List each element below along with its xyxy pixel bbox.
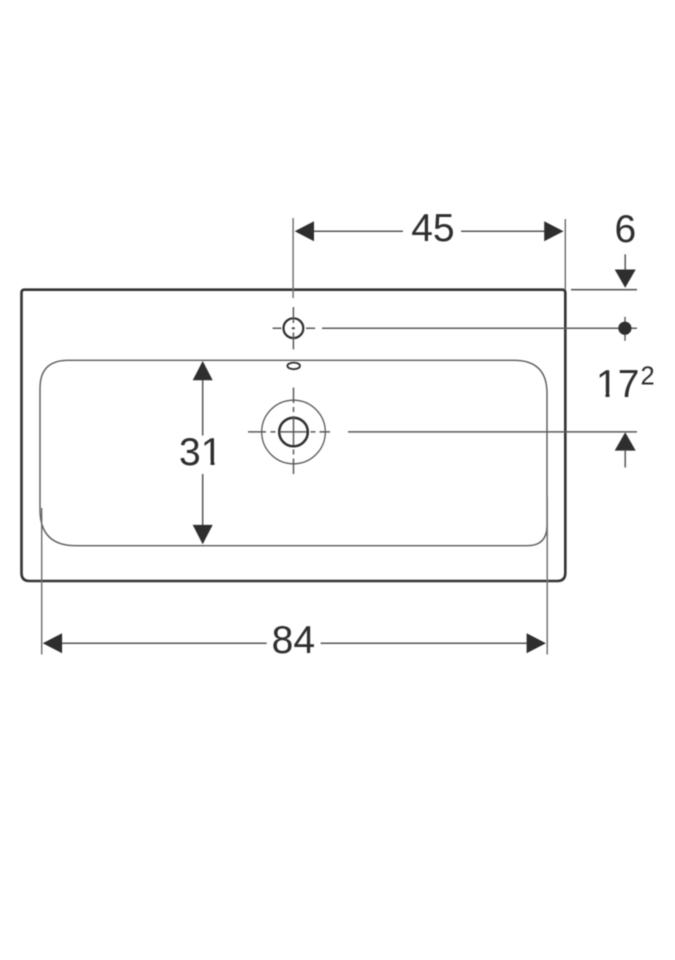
faucet hole (284, 318, 304, 338)
top edge extension line right (571, 289, 637, 291)
reference dot vertical tick (624, 317, 626, 341)
dimension 17 label one-glyph serif patch (598, 393, 605, 398)
dimension 84 line (44, 642, 544, 644)
faucet hole vertical centerline (292, 307, 294, 349)
svg-text:31: 31 (179, 431, 222, 474)
overflow hole (287, 363, 300, 370)
dimension 84 extension line left (41, 508, 43, 655)
svg-text:84: 84 (272, 619, 315, 662)
faucet hole horizontal centerline (273, 327, 316, 329)
line from faucet hole to reference dot (322, 327, 637, 329)
basin inner bowl (40, 360, 547, 545)
dimension 6 down arrowhead (615, 270, 636, 288)
drain vertical centerline (293, 388, 295, 475)
dimension 45 extension line right (564, 219, 566, 290)
dimension 45 left arrowhead (295, 221, 314, 241)
drain inner circle (279, 418, 308, 447)
washbasin outer rim (22, 290, 566, 581)
svg-text:17: 17 (596, 363, 639, 406)
drain outer circle (262, 400, 326, 464)
svg-text:2: 2 (641, 362, 655, 390)
reference dot on faucet centerline (618, 322, 631, 335)
line from drain to right dimension (348, 431, 637, 433)
dimension 45 right arrowhead (544, 221, 563, 241)
dimension 31 line (202, 363, 204, 543)
dimension 84 right arrowhead (527, 633, 546, 653)
dimension 31 down arrowhead (193, 525, 213, 544)
dimension 17 up arrowhead (615, 432, 636, 450)
svg-text:45: 45 (411, 207, 454, 250)
drain horizontal centerline (248, 431, 330, 433)
dimension 84 left arrowhead (43, 633, 62, 653)
dimension 31 label one-glyph serif patch (203, 461, 210, 466)
dimension 84 extension line right (546, 497, 548, 655)
dimension 31 up arrowhead (193, 361, 213, 380)
dimension 6 arrow stem (624, 254, 626, 271)
dimension 17 arrow stem (624, 450, 626, 468)
svg-text:6: 6 (614, 208, 636, 251)
dimension 45 extension line left (292, 218, 294, 298)
dimension 45 line (296, 230, 562, 232)
